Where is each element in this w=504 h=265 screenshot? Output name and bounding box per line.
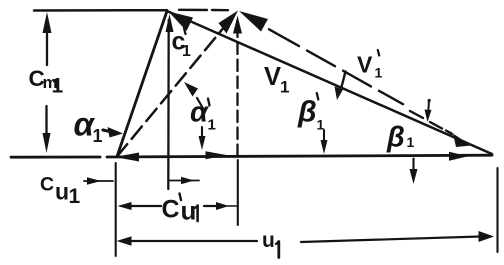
svg-text:β: β <box>297 96 317 129</box>
svg-text:V: V <box>357 52 373 78</box>
label Cu1 <box>40 174 81 209</box>
leader arrow below baseline near beta1 <box>410 159 418 185</box>
svg-text:1: 1 <box>52 75 64 98</box>
leader arrow beta1-prime down <box>321 130 328 154</box>
baseline arrowhead pointing right near right end <box>449 152 468 161</box>
node apex top extension line solid <box>34 9 167 12</box>
vector V1 solid line with apex arrowhead and mid arrowhead <box>167 11 492 154</box>
svg-text:1: 1 <box>93 126 103 146</box>
svg-text:1: 1 <box>317 117 325 133</box>
dimension Cu1 left arrow <box>84 177 113 184</box>
vector c1-prime dashed line with arrowhead <box>117 11 238 157</box>
label V1 <box>264 63 289 97</box>
leader arrow alpha1-prime up-left <box>184 82 204 110</box>
vector cm1-prime dashed vertical arrow at dashed apex <box>233 16 242 157</box>
wire baseline u1 main part <box>107 155 492 157</box>
svg-text:1: 1 <box>182 43 191 60</box>
leader arrow near right convergence <box>425 99 432 122</box>
svg-text:β: β <box>386 122 405 154</box>
svg-text:α: α <box>190 97 209 129</box>
svg-text:1: 1 <box>69 185 81 208</box>
wire baseline u1 left part <box>11 156 100 159</box>
svg-text:u: u <box>262 229 275 252</box>
dimension Cu1 right arrow <box>169 177 199 184</box>
label c1-prime <box>172 28 192 61</box>
extension line below dashed apex x=237 <box>237 160 239 225</box>
dimension Cu1-prime right arrow <box>204 202 238 210</box>
svg-text:u: u <box>55 179 69 205</box>
svg-text:1: 1 <box>407 134 415 150</box>
vector V1-prime dashed line with apex arrowhead <box>239 11 452 134</box>
vector c1 solid line <box>117 11 167 157</box>
dimension Cm1 up arrow <box>43 12 52 65</box>
extension line right x=497 <box>496 168 498 252</box>
dimension Cm1 down arrow <box>43 106 51 153</box>
label beta1 <box>386 122 415 154</box>
label Cu1-prime <box>162 194 198 226</box>
svg-text:C: C <box>162 196 180 224</box>
baseline arrowhead at left vertex pointing left <box>115 153 140 162</box>
svg-text:1: 1 <box>375 65 383 81</box>
svg-text:V: V <box>264 63 281 91</box>
baseline arrowhead pointing right near dashed apex foot <box>206 151 228 159</box>
vector cm1 vertical arrow at solid apex <box>166 14 174 189</box>
label Cm1 <box>29 66 64 98</box>
label alpha1 <box>74 106 103 147</box>
dimension u1 left arrow <box>117 236 258 245</box>
label u1 <box>262 229 279 258</box>
svg-text:u: u <box>181 196 197 226</box>
leader arrow alpha1 <box>103 127 123 138</box>
leader arrow alpha1-prime down <box>199 127 206 150</box>
svg-text:1: 1 <box>208 117 216 134</box>
leader arrow at V1-prime gap <box>335 72 346 101</box>
dimension u1 right arrow <box>301 231 494 242</box>
label V1-prime <box>357 50 383 81</box>
label beta1-prime <box>297 93 325 133</box>
dimension Cu1-prime left arrow <box>118 202 162 210</box>
svg-text:1: 1 <box>280 78 289 97</box>
svg-text:C: C <box>40 174 54 196</box>
label alpha1-prime <box>190 97 216 134</box>
extension line left x=116 <box>115 163 117 256</box>
node apex top extension line dashed <box>179 9 228 12</box>
